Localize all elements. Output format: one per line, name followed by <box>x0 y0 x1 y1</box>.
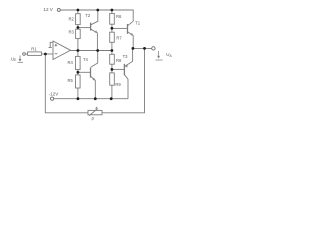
svg-text:T3: T3 <box>123 54 129 59</box>
svg-text:T4: T4 <box>83 57 89 62</box>
svg-text:UE: UE <box>11 57 17 63</box>
svg-text:R3: R3 <box>69 30 75 35</box>
svg-text:UA: UA <box>166 52 172 58</box>
svg-text:R7: R7 <box>116 35 122 40</box>
svg-text:T1: T1 <box>135 21 141 26</box>
svg-text:R2: R2 <box>69 16 75 21</box>
svg-text:P: P <box>92 117 95 122</box>
svg-text:R4: R4 <box>68 60 74 65</box>
svg-text:R6: R6 <box>116 14 122 19</box>
svg-text:12 V: 12 V <box>43 7 53 12</box>
svg-text:R5: R5 <box>68 78 74 83</box>
svg-text:-12V: -12V <box>49 92 60 97</box>
svg-text:R1: R1 <box>31 46 37 51</box>
svg-text:R8: R8 <box>116 58 122 63</box>
svg-text:R9: R9 <box>115 82 121 87</box>
svg-text:T2: T2 <box>85 13 91 18</box>
